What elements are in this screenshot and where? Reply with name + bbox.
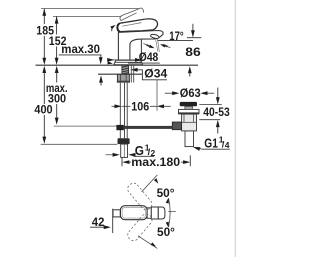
faucet base bbox=[114, 60, 143, 64]
dimension 86 bbox=[185, 24, 201, 77]
label G1/2 bbox=[106, 143, 156, 159]
faucet lever raised outline bbox=[120, 8, 144, 21]
dimension max.30 bbox=[59, 42, 103, 85]
svg-text:4: 4 bbox=[225, 140, 230, 150]
extension line 400 bottom bbox=[41, 143, 118, 145]
pop-up linkage pipe bbox=[124, 126, 172, 129]
svg-text:max.180: max.180 bbox=[131, 155, 180, 169]
hose end nut bbox=[118, 138, 130, 144]
svg-text:106: 106 bbox=[131, 100, 149, 114]
svg-text:40-53: 40-53 bbox=[203, 105, 230, 119]
dimension max.300 bbox=[46, 66, 68, 125]
drain tailpipe bbox=[185, 131, 194, 147]
plan view: cartridge ring bbox=[151, 207, 158, 219]
drain side inlet nut bbox=[172, 122, 181, 130]
svg-text:50°: 50° bbox=[157, 186, 175, 200]
dimension 185 bbox=[36, 9, 54, 65]
extension line 152 top bbox=[53, 15, 122, 17]
plan view: lever inner contour bbox=[122, 207, 146, 218]
svg-text:Ø48: Ø48 bbox=[139, 50, 159, 64]
dimension 40-53 bbox=[199, 88, 230, 134]
swing arc bbox=[169, 198, 171, 227]
pop-up rod bbox=[131, 65, 133, 82]
50 degree leader top bbox=[142, 175, 175, 200]
supply hose bbox=[120, 83, 127, 139]
label G1 1/4 bbox=[192, 134, 229, 150]
countertop top line bbox=[36, 64, 199, 66]
drain flange bbox=[179, 109, 200, 114]
hose end tube G1/2 bbox=[121, 144, 128, 157]
extension line 185 top bbox=[41, 8, 139, 10]
svg-text:Ø63: Ø63 bbox=[180, 86, 201, 100]
dimension 42 bbox=[90, 209, 113, 233]
faucet lever solid bbox=[117, 19, 157, 32]
svg-text:max.30: max.30 bbox=[61, 42, 100, 56]
countertop bottom line bbox=[98, 73, 143, 75]
plan view: lever body bbox=[120, 206, 147, 220]
linkage coupler bbox=[116, 125, 124, 130]
drain body bbox=[182, 114, 197, 131]
drain plug stem bbox=[185, 106, 193, 109]
mounting shank threaded bbox=[122, 65, 129, 74]
svg-text:300: 300 bbox=[48, 92, 66, 106]
drain pop-up plug cap bbox=[180, 102, 197, 106]
lever lift arrow bbox=[112, 26, 114, 32]
svg-text:50°: 50° bbox=[157, 225, 175, 239]
lever tip dark edge bbox=[118, 24, 120, 32]
svg-text:G1: G1 bbox=[204, 136, 218, 150]
plan view: neck bbox=[147, 208, 151, 219]
dashed handle rotated up bbox=[126, 212, 154, 243]
dimension Ø34 bbox=[130, 67, 167, 81]
pivot axis tick bbox=[168, 211, 176, 213]
svg-text:86: 86 bbox=[185, 45, 201, 59]
page fold line bbox=[234, 0, 236, 257]
plan view: end cap bbox=[158, 207, 165, 219]
extension line max.300 bottom bbox=[54, 125, 117, 127]
dashed handle rotated down bbox=[126, 181, 154, 212]
svg-text:Ø34: Ø34 bbox=[144, 67, 167, 81]
plan view: handle stub bbox=[113, 210, 120, 217]
mounting nut bbox=[117, 74, 129, 81]
dimension 152 bbox=[49, 16, 67, 65]
lever inner contour line bbox=[122, 23, 141, 27]
washer bbox=[117, 81, 130, 83]
aerator bbox=[150, 34, 159, 52]
dimension Ø63 bbox=[165, 86, 214, 100]
50 degree leader bottom bbox=[138, 225, 175, 249]
dimension Ø48 bbox=[107, 50, 160, 65]
dimension 400 bbox=[34, 66, 52, 144]
dimension max.180 bbox=[122, 155, 190, 169]
faucet body and spout bbox=[118, 31, 163, 61]
dimension 17 degrees bbox=[143, 29, 193, 50]
dimension 106 bbox=[112, 80, 171, 114]
